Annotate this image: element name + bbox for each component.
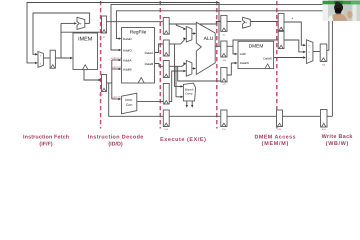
arrowhead DMEM DataW: [235, 62, 238, 64]
webcam person face mask: [335, 8, 342, 14]
register MEM/WB inst: [277, 110, 283, 127]
webcam person hair bun: [335, 2, 340, 6]
clock triangle ID/EX inst: [164, 123, 168, 126]
wire WB rd feedback to RegFile AddrD: [111, 5, 332, 117]
wire MEM/WB pc+4 to WB mux input 0: [284, 22, 305, 45]
arrowhead PC mux input 1: [35, 62, 38, 64]
wire inst[31:7] to Imm Gen: [112, 98, 120, 100]
clock triangle ID/EX A: [164, 53, 168, 56]
arrowhead BrEq down: [186, 105, 188, 108]
register wb data: [320, 44, 327, 62]
webcam person raised hand: [346, 10, 353, 18]
clock triangle MEM/WB inst: [277, 123, 281, 126]
webcam green banner dark segment: [334, 1, 343, 5]
memory IMEM: [73, 33, 98, 70]
webcam person neck shadow: [336, 12, 341, 15]
svg-text:Comp.: Comp.: [185, 92, 193, 95]
clock triangle WB inst register: [322, 123, 327, 127]
clock triangle ID/EX B: [164, 74, 168, 77]
register IF/ID pc: [102, 16, 107, 33]
clock triangle MEM/WB ALU: [279, 45, 283, 48]
webcam left light wall area: [323, 0, 329, 21]
svg-text:DataR: DataR: [263, 57, 272, 61]
arrowhead B-mux input 1: [183, 70, 186, 72]
svg-text:RegFile: RegFile: [130, 29, 147, 35]
wire B register output: [169, 65, 182, 67]
arrowhead RegFile AddrD: [119, 49, 122, 51]
register EX/MEM ALU: [221, 41, 227, 57]
wire WB data feedback to RegFile DataD: [116, 11, 329, 51]
register WB inst: [321, 110, 328, 128]
svg-text:AddrD: AddrD: [123, 48, 133, 52]
arrowhead WB mux input 1: [303, 51, 306, 53]
svg-text:inst[19:15]: inst[19:15]: [111, 57, 122, 60]
wire RegFile DataB to ID/EX B register: [155, 64, 164, 67]
clock triangle IF/ID inst: [102, 88, 106, 91]
register ID/EX inst: [163, 110, 169, 127]
stage divider ID/EX: [159, 1, 161, 129]
webcam green banner: [323, 1, 360, 5]
arrowhead B-mux input 0: [183, 62, 186, 64]
register ID/EX B: [163, 61, 169, 78]
wire PC value to +4 adder input: [61, 22, 76, 24]
arrowhead A-mux input 0: [183, 28, 186, 30]
memory DMEM: [238, 41, 274, 68]
arrowhead branch comp input A: [181, 85, 184, 87]
register ID/EX A: [163, 40, 169, 56]
svg-text:AddrB: AddrB: [123, 67, 132, 71]
wire inst field riser to AddrA AddrB ImmGen: [111, 60, 113, 99]
clock triangle ID/EX pc: [164, 31, 168, 34]
svg-text:(ID/D): (ID/D): [108, 141, 123, 147]
clock triangle EX/MEM B: [222, 79, 226, 82]
wire IMEM instruction output to IF/ID inst register: [84, 70, 100, 81]
stage divider IF/ID: [100, 1, 102, 129]
arrowhead DMEM Addr: [235, 53, 238, 55]
webcam person shoulders: [329, 13, 347, 21]
alu ALU: [196, 22, 215, 74]
wire A register output: [169, 43, 180, 45]
clock triangle EX/MEM ALU: [222, 54, 226, 57]
clock triangle PC register: [51, 65, 55, 69]
comparator Branch Comp: [183, 83, 195, 101]
wire pc through EX to EX/MEM pc register: [169, 22, 221, 25]
clock triangle wb register: [321, 58, 326, 62]
register PC: [50, 50, 55, 68]
wire +4 adder output to MEM/WB register: [250, 21, 278, 23]
wire ALU value to MEM/WB ALU register: [233, 40, 278, 46]
clock triangle IF/ID pc: [102, 30, 106, 33]
arrowhead BrLT down: [191, 105, 193, 108]
register IF/ID inst: [102, 75, 107, 92]
svg-text:Instruction Fetch: Instruction Fetch: [23, 134, 69, 140]
svg-text:Addr: Addr: [240, 52, 246, 56]
wire adder output riser: [85, 22, 90, 24]
register MEM/WB ALU: [278, 31, 284, 48]
register EX/MEM inst: [221, 110, 227, 127]
wire pc tap to ALU A-mux input 0: [176, 24, 185, 29]
wire PC register output to IMEM Addr: [55, 57, 71, 59]
svg-text:+: +: [80, 22, 82, 26]
webcam right light strip: [353, 4, 357, 21]
immediate generator Imm Gen: [122, 93, 137, 114]
arrowhead ALU input B: [193, 67, 196, 69]
svg-text:AddrA: AddrA: [123, 58, 133, 62]
mux PC source select: [38, 52, 43, 68]
clock triangle EX/MEM pc: [222, 28, 226, 31]
wire B-mux output to ALU: [192, 68, 195, 70]
svg-text:inst: inst: [278, 128, 282, 131]
mux ALU input B: [186, 61, 192, 77]
wire ALU value to DMEM Addr: [233, 46, 236, 54]
clock triangle ID/EX imm: [164, 101, 168, 104]
svg-text:inst: inst: [164, 128, 168, 131]
svg-text:inst[24:20]: inst[24:20]: [111, 66, 122, 69]
register EX/MEM pc: [221, 15, 227, 31]
wire Imm Gen output to ID/EX imm register: [137, 100, 163, 102]
wire ALU output to EX/MEM ALU register: [215, 45, 221, 47]
wire MEM/WB ALU to WB mux input 1: [284, 40, 305, 52]
mux ALU input A: [186, 27, 192, 43]
wire inst output of IF/ID register: [107, 82, 112, 84]
clock triangle EX/MEM inst: [222, 123, 226, 126]
arrowhead RegFile AddrA: [119, 59, 122, 61]
wire pc from IF/ID to ID/EX pc register: [107, 21, 164, 23]
svg-text:DataD: DataD: [123, 37, 133, 41]
register ID/EX pc: [163, 18, 169, 35]
svg-text:inst[31:7]: inst[31:7]: [111, 96, 121, 99]
arrowhead ALU input A: [193, 32, 196, 34]
arrowhead WB mux input 2: [303, 56, 306, 58]
wire inst drop to pipeline inst bus: [109, 83, 164, 116]
webcam green banner light segment: [351, 1, 360, 5]
webcam wall shadow behind person: [344, 4, 352, 21]
svg-text:(IF/F): (IF/F): [39, 141, 52, 147]
webcam person white top strap: [327, 15, 333, 21]
wire PC mux output to PC register: [43, 57, 50, 59]
register EX/MEM B: [221, 68, 227, 83]
wire EX/MEM pc to +4 adder: [227, 21, 241, 23]
webcam person hair: [334, 3, 343, 12]
arrowhead IMEM Addr input: [70, 57, 73, 59]
register MEM/WB pc+4: [278, 13, 284, 30]
mux writeback select: [306, 40, 313, 64]
wire wb register output riser: [327, 49, 329, 51]
wire imm to B-mux input 1: [169, 71, 186, 101]
arrowhead PC mux input 0: [35, 53, 38, 55]
svg-text:DataW: DataW: [240, 61, 249, 65]
wire B to B-mux input 0: [182, 64, 186, 67]
svg-text:DataB: DataB: [145, 62, 154, 66]
svg-text:(WB/W): (WB/W): [326, 141, 349, 147]
wire DMEM DataR to WB mux input 2: [274, 57, 305, 59]
wire branch-target feedback from ALU output to PC mux input 1: [27, 3, 219, 63]
svg-text:Gen: Gen: [126, 103, 133, 107]
svg-text:DataA: DataA: [145, 51, 155, 55]
svg-text:ALU: ALU: [204, 36, 214, 42]
svg-text:+: +: [246, 21, 248, 25]
register file RegFile: [122, 28, 155, 84]
wire inst bus EX/MEM to MEM/WB: [227, 115, 277, 117]
register ID/EX imm: [163, 84, 169, 105]
clock triangle IMEM: [83, 65, 88, 70]
wire PC to IF/ID pc register input: [61, 31, 102, 33]
svg-text:Instruction Decode: Instruction Decode: [88, 134, 144, 140]
arrowhead RegFile DataD: [119, 37, 122, 39]
arrowhead IF/ID inst register input: [99, 79, 102, 81]
arrowhead branch comp input B: [181, 96, 184, 98]
svg-text:Branch: Branch: [185, 89, 194, 92]
webcam overlay background wall: [323, 0, 360, 21]
wire branch comparator BrEq output: [186, 101, 188, 107]
arrowhead adder input: [74, 22, 77, 24]
clock triangle RegFile: [138, 78, 144, 84]
svg-text:inst: inst: [99, 94, 103, 97]
svg-text:inst: inst: [322, 128, 326, 131]
wire store data to DMEM DataW: [227, 63, 236, 75]
wire A to A-mux input 1: [181, 39, 186, 45]
stage divider EX/MEM: [216, 1, 218, 129]
wire WB mux output to wb register: [313, 51, 320, 53]
clock triangle MEM/WB pc+4: [279, 27, 283, 30]
svg-text:IMEM: IMEM: [78, 36, 93, 42]
wire PC output junction vertical: [60, 23, 62, 58]
svg-text:(MEM/M): (MEM/M): [262, 141, 289, 147]
arrowhead RegFile AddrB: [119, 68, 122, 70]
wire A-mux output to ALU: [192, 33, 196, 35]
adder PC+4 (IF): [77, 17, 85, 29]
wire branch comparator BrLT output: [191, 101, 193, 107]
arrowhead Imm Gen input: [118, 98, 121, 100]
wire WB inst register output riser: [327, 115, 332, 117]
wire RegFile DataA to ID/EX A register: [155, 44, 164, 53]
stage divider MEM/WB: [276, 1, 278, 129]
svg-text:inst: inst: [222, 128, 226, 131]
wire B to branch comparator: [176, 66, 183, 97]
clock triangle DMEM: [265, 64, 270, 69]
arrowhead A-mux input 1: [183, 37, 186, 39]
wire inst bus ID/EX to EX/MEM: [169, 115, 221, 117]
wire PC+4 loop from adder output to PC mux input 0: [33, 13, 90, 54]
wire ALU value junction in MEM: [227, 45, 233, 47]
wire A to branch comparator: [175, 44, 183, 86]
svg-text:Write Back: Write Back: [322, 134, 353, 140]
arrowhead WB mux input 0: [303, 44, 306, 46]
svg-text:DMEM Access: DMEM Access: [255, 134, 296, 140]
wire inst[19:15] to AddrA: [112, 59, 120, 61]
adder +4 (MEM): [243, 17, 251, 28]
wire inst bus MEM/WB to WB inst register: [283, 115, 321, 117]
wire B to EX/MEM B register: [178, 66, 221, 81]
svg-text:Imm.: Imm.: [125, 98, 133, 102]
svg-text:DMEM: DMEM: [249, 44, 264, 50]
wire inst[24:20] to AddrB: [112, 68, 120, 70]
svg-text:Execute (EX/E): Execute (EX/E): [160, 137, 206, 143]
